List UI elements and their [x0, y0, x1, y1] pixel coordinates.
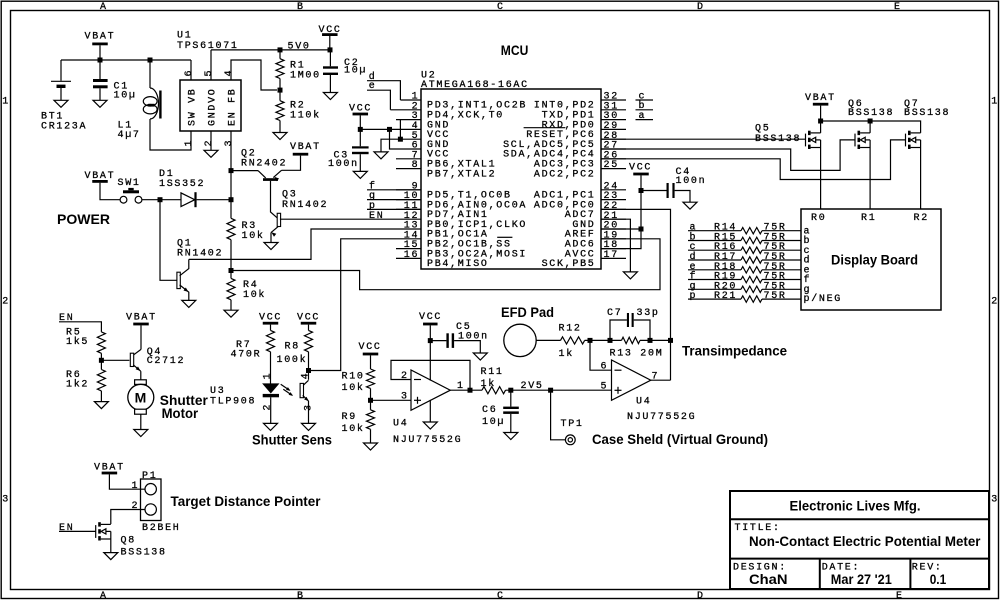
svg-text:2: 2: [262, 403, 273, 411]
svg-text:Mar 27 '21: Mar 27 '21: [831, 571, 892, 587]
resistor R11: [482, 387, 506, 394]
svg-text:2: 2: [401, 371, 409, 382]
U1 pin names (rotated): SW VB / GNDVO / EN FB: [187, 87, 238, 126]
svg-text:1M00: 1M00: [290, 70, 321, 81]
junction U4a output: [468, 388, 473, 393]
svg-text:3: 3: [991, 495, 999, 506]
svg-text:R2: R2: [914, 213, 929, 224]
label R11 1k: [481, 367, 504, 390]
label Q4 C2712: [147, 347, 186, 367]
capacitor C6: [503, 390, 519, 432]
wire U2 pin28 SCL to Q5 gate: [601, 138, 806, 140]
svg-text:5: 5: [601, 382, 609, 393]
ground below U4a: [423, 422, 437, 429]
net EN label (shutter driver): [59, 313, 74, 324]
net g stub (U2 pin10): [369, 191, 377, 202]
wire U4a output: [450, 389, 482, 391]
U2 right pin numbers: [604, 92, 619, 261]
wire EFD pad to R12: [536, 339, 560, 341]
ground below C3: [353, 171, 367, 178]
svg-text:100k: 100k: [277, 354, 308, 366]
svg-text:C: C: [497, 2, 505, 13]
svg-text:U4: U4: [636, 396, 651, 407]
switch SW1: [120, 188, 142, 203]
label Q6 BSS138: [848, 99, 894, 119]
label Q8 BSS138: [121, 535, 167, 558]
label R15 / b / 75R: [690, 231, 787, 243]
ground below R2: [273, 133, 287, 140]
label R1 1M00: [290, 60, 321, 81]
svg-text:CR123A: CR123A: [41, 121, 87, 132]
title block DESIGN:: [733, 563, 787, 574]
svg-text:0.1: 0.1: [930, 571, 947, 587]
U1 pin numbers (rotated): [184, 69, 235, 147]
svg-text:R21: R21: [714, 291, 737, 302]
label C4 100n: [676, 167, 707, 187]
resistor R21 75R (segment p): [688, 296, 801, 302]
junction 5V0 / C2 / VCC: [328, 47, 333, 52]
svg-text:A: A: [100, 591, 108, 600]
net p stub (U2 pin11): [369, 201, 377, 212]
wire U2 pin3 GND down: [399, 120, 401, 140]
wire U4b output: [651, 379, 671, 381]
label R21 / p / 75R: [690, 291, 787, 302]
U4a pin numbers 2 3 1: [401, 371, 465, 403]
label R13 20M: [610, 348, 664, 359]
svg-text:NJU77552G: NJU77552G: [393, 435, 462, 446]
wire EN to Q8 gate: [59, 530, 96, 532]
capacitor C7 (feedback): [610, 313, 650, 340]
svg-text:2: 2: [991, 297, 999, 308]
ground below C1: [93, 100, 107, 107]
net 5V0 label: [288, 42, 311, 53]
resistor R1: [279, 50, 281, 59]
svg-text:3: 3: [303, 403, 314, 411]
svg-text:1: 1: [991, 97, 999, 108]
svg-text:Display Board: Display Board: [831, 251, 918, 267]
junction battery rail / C1: [98, 58, 103, 63]
label C6 10u: [482, 405, 505, 428]
svg-text:GNDVO: GNDVO: [207, 87, 218, 126]
resistor R12: [561, 337, 585, 344]
transistor Q5 BSS138: [806, 131, 821, 149]
wire EN to R5: [59, 322, 101, 332]
svg-text:17: 17: [604, 250, 619, 261]
label U3 TLP908: [210, 386, 256, 407]
junction R5/R6/Q4 base: [99, 358, 104, 363]
wire R5/R6 node to Q4 base: [101, 359, 129, 361]
svg-text:1k: 1k: [559, 348, 574, 360]
ground below R4: [224, 310, 238, 317]
U3 phototransistor: [300, 380, 309, 423]
svg-text:NJU77552G: NJU77552G: [627, 412, 696, 423]
op-amp U4b (transimpedance): [612, 360, 651, 400]
svg-text:1: 1: [132, 481, 140, 492]
svg-text:1: 1: [2, 97, 10, 108]
U1 pin 2 wire (GND): [210, 131, 212, 150]
display board segment pin letters: [804, 226, 843, 305]
label R17 / d / 75R: [690, 251, 787, 263]
wire Q6 source to display R1: [869, 148, 871, 210]
label R0 R1 R2 pins: [811, 213, 929, 224]
junction C5 tap: [428, 338, 433, 343]
svg-text:R11: R11: [481, 367, 504, 378]
capacitor C1: [93, 60, 108, 100]
label R7 470R: [231, 340, 262, 361]
ground below C6: [504, 433, 518, 440]
border row labels left: [2, 97, 10, 506]
label U2 ATMEGA168-16AC: [421, 71, 529, 92]
svg-text:ChaN: ChaN: [749, 571, 788, 587]
U1 pin 4 wire (FB): [231, 60, 277, 90]
border row labels right: [991, 97, 999, 506]
svg-text:Shutter Sens: Shutter Sens: [252, 432, 332, 448]
resistor R3: [227, 218, 235, 239]
junction D1 / R3: [229, 197, 234, 202]
ground U2 pins 3/5: [374, 152, 388, 159]
svg-text:1k: 1k: [481, 378, 496, 390]
title block frame: [730, 491, 989, 589]
ground below Q1: [182, 300, 196, 307]
label R10 10k: [342, 372, 365, 395]
wire U2 pin5 GND to ground: [381, 139, 396, 152]
svg-text:5V0: 5V0: [288, 42, 311, 53]
label L1 4u7: [118, 120, 141, 141]
svg-text:4µ7: 4µ7: [118, 130, 141, 141]
wire U2 pin14 to shutter sensor: [309, 239, 397, 371]
junction VCC / pin4: [358, 127, 363, 132]
label Q5 BSS138: [755, 123, 801, 145]
wire Q2 collector to Q3: [271, 181, 279, 219]
resistor R6: [97, 370, 105, 391]
svg-text:3: 3: [2, 495, 10, 506]
label P1: [142, 471, 157, 482]
capacitor C3: [352, 146, 369, 171]
junction battery rail / L1: [148, 58, 153, 63]
svg-text:10k: 10k: [242, 230, 265, 242]
svg-text:M: M: [135, 390, 147, 406]
label R3 10k: [242, 221, 265, 242]
label R9 10k: [342, 412, 365, 435]
capacitor C2: [323, 50, 338, 93]
label U4 NJU77552G (a): [393, 419, 462, 446]
capacitor C5: [430, 333, 480, 353]
wire VBAT to P1 pin1: [109, 474, 145, 489]
junction C4 tap: [639, 188, 644, 193]
svg-text:R12: R12: [559, 323, 582, 334]
svg-text:EN FB: EN FB: [227, 87, 238, 126]
svg-text:10µ: 10µ: [344, 65, 367, 76]
wire VCC to U2 pin4: [359, 115, 361, 146]
transistor Q8 BSS138: [96, 522, 111, 540]
U2 pin29 RESET overline: [524, 127, 566, 129]
wire VBAT symbol to rail: [99, 45, 101, 60]
svg-text:R1: R1: [861, 213, 876, 224]
net VBAT label (P1): [94, 462, 125, 473]
resistor R16 75R (segment c): [688, 247, 801, 253]
wire Q1 collector to U2 pin13: [189, 229, 396, 259]
border column labels top: [100, 2, 902, 13]
svg-text:D: D: [697, 2, 705, 13]
svg-text:10k: 10k: [243, 289, 266, 301]
label Q7 BSS138: [904, 99, 950, 119]
svg-text:1: 1: [262, 372, 273, 380]
wire battery sense to U2 ADC6 (pin19): [231, 239, 660, 290]
svg-text:10k: 10k: [342, 382, 365, 394]
svg-text:VCC: VCC: [359, 342, 382, 353]
wire U1 EN node down to R3: [230, 171, 232, 219]
ground U2 pin21: [623, 272, 637, 279]
label Q3 RN1402: [282, 190, 328, 212]
svg-text:Q3: Q3: [282, 190, 297, 201]
label R16 / c / 75R: [690, 242, 787, 253]
label C2 10u: [344, 58, 367, 77]
U2 pin14 SS overline: [497, 236, 512, 238]
svg-text:BSS138: BSS138: [904, 108, 950, 119]
junction R1/R2/FB: [278, 88, 283, 93]
svg-text:P1: P1: [142, 471, 157, 482]
svg-text:TP1: TP1: [561, 419, 584, 430]
net VBAT label (Q2 emitter): [290, 142, 321, 153]
svg-text:EN: EN: [59, 523, 74, 534]
ground below Q8: [104, 553, 118, 560]
EFD pad electrode: [504, 324, 536, 356]
label TP1: [561, 419, 584, 430]
svg-text:VBAT: VBAT: [85, 32, 116, 43]
wire VBAT rail to FET drains: [820, 106, 822, 121]
svg-text:BSS138: BSS138: [848, 108, 894, 119]
label BT1 CR123A: [41, 112, 87, 133]
junction R10/R9 divider: [368, 398, 373, 403]
label R18 / e / 75R: [690, 262, 787, 273]
wire VCC to U4a V+: [429, 325, 431, 380]
resistor R14 75R (segment a): [688, 228, 801, 234]
wire 5V0 rail: [211, 49, 330, 51]
svg-text:VCC: VCC: [629, 163, 652, 174]
label B2BEH: [142, 523, 181, 534]
P1 pin 1 circle: [145, 484, 156, 495]
U2 left pin numbers: [404, 92, 420, 261]
label Q1 RN1402: [177, 239, 223, 260]
ground below Q3: [264, 243, 278, 250]
label C7 33p: [607, 308, 660, 319]
svg-text:a: a: [639, 111, 647, 122]
P1 pin 2 circle: [145, 504, 156, 515]
ground below motor: [134, 430, 148, 437]
svg-text:R8: R8: [285, 342, 300, 353]
svg-text:A: A: [100, 2, 108, 13]
svg-text:BSS138: BSS138: [121, 548, 167, 559]
svg-text:VBAT: VBAT: [805, 93, 836, 104]
wire inverting input to U4b pin6: [590, 340, 612, 370]
svg-text:100n: 100n: [328, 159, 359, 170]
net VCC symbol (AVCC): [629, 163, 652, 174]
svg-text:33p: 33p: [637, 308, 660, 319]
U3 LED pin 1 number (rotated): [262, 372, 273, 380]
transistor Q2 RN2402: [231, 156, 301, 182]
diode D1 1SS352: [181, 192, 231, 207]
U1 pin 3 wire (EN): [230, 131, 232, 171]
svg-text:MCU: MCU: [501, 42, 529, 58]
resistor R19 75R (segment f): [688, 276, 801, 282]
svg-text:Non-Contact Electric Potential: Non-Contact Electric Potential Meter: [749, 533, 981, 549]
battery BT1: [51, 60, 71, 100]
svg-text:B: B: [297, 591, 305, 600]
ground below BT1: [54, 100, 68, 107]
net EN label (U2 pin12): [369, 211, 384, 222]
transistor Q3 RN1402: [271, 213, 281, 242]
U2 left pin stubs 1-16: [390, 100, 421, 258]
wire Q7 source to display R2: [920, 148, 922, 210]
svg-text:10µ: 10µ: [482, 417, 505, 428]
wire U2 pin21 GND to ground: [601, 219, 630, 272]
svg-text:3: 3: [401, 392, 409, 403]
op U2 ATMEGA168 box: [421, 89, 601, 269]
svg-text:RN2402: RN2402: [241, 158, 287, 169]
resistor R13 (feedback): [622, 337, 640, 343]
svg-text:1SS352: 1SS352: [159, 179, 205, 190]
svg-text:1k5: 1k5: [66, 336, 89, 348]
svg-text:1: 1: [184, 139, 195, 147]
transistor Q1 RN1402: [160, 200, 189, 301]
label C3 100n: [328, 150, 359, 170]
wire U2 pin20 AREF to VCC rail: [601, 228, 641, 230]
junction C7/R13 left: [608, 338, 613, 343]
svg-text:75R: 75R: [764, 291, 787, 302]
svg-text:25: 25: [604, 160, 619, 171]
label R2 110k: [290, 101, 321, 122]
svg-text:p/NEG: p/NEG: [804, 293, 843, 305]
label R4 10k: [243, 280, 266, 301]
net f stub (U2 pin9): [369, 180, 377, 192]
resistor R2: [276, 101, 284, 121]
P1 pin 2 number: [132, 501, 140, 512]
junction VBAT/Q6 drain: [868, 119, 873, 124]
junction VCC / pin6 branch: [387, 127, 392, 132]
U2 right pin stubs 17-32: [601, 100, 626, 258]
net VCC symbol top: [319, 25, 342, 36]
U3 phototransistor pin 3 number (rotated): [303, 403, 314, 411]
svg-text:EN: EN: [369, 211, 384, 222]
svg-text:TLP908: TLP908: [210, 396, 256, 407]
wire U4a feedback loop: [391, 360, 470, 390]
junction C6: [508, 388, 513, 393]
svg-text:ATMEGA168-16AC: ATMEGA168-16AC: [421, 80, 529, 91]
wire R12 to R13/C7: [585, 339, 622, 341]
net a stub (U2 pin30): [639, 111, 647, 122]
net e stub to U2 pin2: [369, 81, 377, 92]
label R12 1k: [559, 323, 582, 360]
ground below C5: [473, 353, 487, 360]
wire R13 to output node: [640, 339, 671, 341]
net VCC symbol (U2 power): [349, 103, 372, 114]
svg-text:C6: C6: [482, 405, 497, 416]
svg-text:PB7,XTAL2: PB7,XTAL2: [427, 169, 496, 180]
svg-text:VBAT: VBAT: [290, 142, 321, 153]
wire 2V5 rail: [506, 389, 612, 391]
resistor R15 75R (segment b): [688, 237, 801, 243]
ground below U3 LED: [264, 423, 278, 430]
title block DATE:: [822, 563, 861, 574]
junction TP1: [548, 388, 553, 393]
label R8 100k: [277, 342, 308, 367]
wire EN: Q3 base to U2 pin12: [280, 218, 396, 220]
svg-text:3: 3: [224, 139, 235, 147]
net b stub (U2 pin31): [639, 100, 647, 112]
label U1 TPS61071: [177, 31, 239, 52]
label C1 10u: [114, 82, 137, 102]
light arrow LED to sensor: [281, 384, 293, 396]
junction C7/R13 right: [648, 338, 653, 343]
svg-text:RN1402: RN1402: [177, 248, 223, 259]
svg-text:R10: R10: [342, 372, 365, 383]
wire Q8 source to ground: [110, 539, 112, 553]
wire SW1 to D1: [142, 199, 181, 201]
net VCC symbol (R7): [259, 312, 282, 323]
label R14 / a / 75R: [690, 223, 787, 234]
label Q2 RN2402: [241, 148, 287, 169]
resistor R20 75R (segment g): [688, 286, 801, 292]
svg-text:470R: 470R: [231, 350, 262, 361]
label SW1: [118, 178, 141, 189]
ground below R6: [94, 402, 108, 409]
U2 left pin names: [427, 101, 527, 270]
label R5 1k5: [66, 327, 89, 348]
svg-text:R0: R0: [811, 213, 826, 224]
resistor R4: [227, 278, 235, 299]
wire U2 pin27 SDA to Q6 gate: [601, 140, 855, 171]
svg-text:Transimpedance: Transimpedance: [682, 342, 787, 358]
wire divider to U4a non-inverting input: [371, 399, 412, 401]
resistor R18 75R (segment e): [688, 267, 801, 273]
junction R3/R4 (battery sense): [229, 268, 234, 273]
transistor Q7 BSS138: [906, 131, 921, 149]
svg-text:VCC: VCC: [419, 312, 442, 323]
svg-text:8: 8: [412, 160, 420, 171]
svg-text:RN1402: RN1402: [282, 200, 328, 211]
svg-text:Target Distance Pointer: Target Distance Pointer: [171, 493, 322, 509]
svg-text:Q5: Q5: [755, 123, 770, 134]
svg-text:Motor: Motor: [162, 405, 199, 421]
wire U4a V- to ground: [429, 400, 431, 422]
U1 pin 5 wire (VO to 5V0): [210, 50, 212, 80]
junction inverting input tap: [588, 338, 593, 343]
svg-text:2: 2: [2, 297, 10, 308]
junction 5V0 / R1: [278, 47, 283, 52]
transistor Q6 BSS138: [855, 131, 870, 149]
svg-text:Electronic Lives Mfg.: Electronic Lives Mfg.: [790, 498, 921, 514]
svg-text:R9: R9: [342, 412, 357, 423]
svg-text:2V5: 2V5: [521, 381, 544, 392]
resistor R5: [97, 332, 105, 353]
title block REV:: [912, 563, 943, 574]
net VCC symbol (op-amp supply): [419, 312, 442, 323]
svg-text:POWER: POWER: [57, 211, 110, 227]
net 2V5 label: [521, 381, 544, 392]
svg-text:6: 6: [184, 69, 195, 77]
ground below C2: [323, 93, 337, 100]
wire U2 pin22 ADC7 to transimpedance output: [601, 209, 671, 380]
svg-text:U4: U4: [393, 419, 408, 430]
U4b pin numbers 6 5 7: [601, 362, 660, 393]
svg-text:SCK,PB5: SCK,PB5: [542, 259, 596, 270]
U2 right pin names: [503, 101, 595, 270]
P1 pin 1 number: [132, 481, 140, 492]
svg-text:SW1: SW1: [118, 178, 141, 189]
net VCC symbol (R8): [297, 312, 320, 323]
resistor R17 75R (segment d): [688, 257, 801, 263]
svg-text:D: D: [697, 591, 705, 600]
